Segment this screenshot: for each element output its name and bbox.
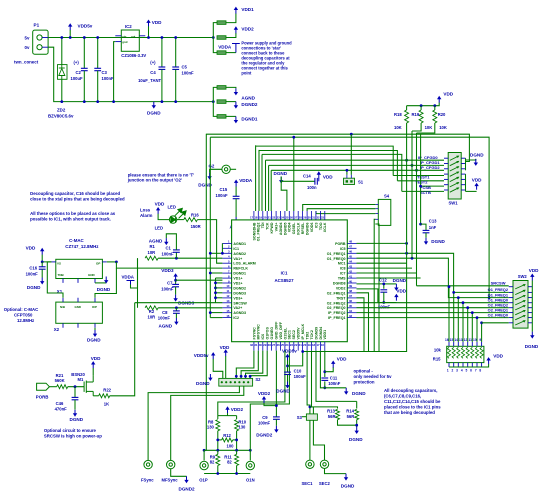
wire R8 top lead xyxy=(217,416,219,419)
node junction c9 top xyxy=(275,404,278,407)
svg-text:BSN20: BSN20 xyxy=(71,372,85,377)
wire X2 NB up xyxy=(47,262,63,298)
capacitor C16 xyxy=(39,267,46,269)
wire SW1 vdd riser xyxy=(466,190,477,192)
svg-text:DGND: DGND xyxy=(274,171,288,176)
svg-text:DGND: DGND xyxy=(70,417,84,422)
wire VDDA vert xyxy=(137,258,139,308)
svg-text:LED: LED xyxy=(168,205,176,210)
svg-text:10K: 10K xyxy=(439,125,447,130)
svg-text:VA3+: VA3+ xyxy=(274,223,278,232)
svg-text:GND_DIFF: GND_DIFF xyxy=(274,321,278,340)
svg-text:31: 31 xyxy=(254,343,258,347)
wire C10 column xyxy=(287,360,289,372)
svg-text:40: 40 xyxy=(349,279,353,283)
svg-text:37: 37 xyxy=(349,294,353,298)
power flag VDD reg xyxy=(146,20,150,27)
X2 pin stubs xyxy=(63,298,95,328)
ground DGND1 star xyxy=(234,116,238,123)
ground DGND SEC xyxy=(344,474,348,481)
node junction agnd3 xyxy=(209,311,212,314)
svg-text:R13: R13 xyxy=(327,409,335,414)
switch SW1 body xyxy=(448,153,461,200)
power flag VDD pullups xyxy=(437,96,441,103)
SW2 lever 2 xyxy=(515,290,526,295)
svg-text:150R: 150R xyxy=(191,224,201,229)
S4 pin 3 xyxy=(375,213,378,215)
node junction r15-1 xyxy=(448,285,451,288)
svg-text:560K: 560K xyxy=(55,378,65,383)
wire line2 drop col10 xyxy=(293,137,295,211)
svg-text:C15: C15 xyxy=(220,187,228,192)
svg-text:C5: C5 xyxy=(182,65,188,70)
svg-text:AGND1: AGND1 xyxy=(233,242,246,246)
svg-text:R2: R2 xyxy=(149,309,155,314)
wire G2 right lead xyxy=(230,168,236,170)
node junction zener bottom xyxy=(60,100,63,103)
svg-text:AGND: AGND xyxy=(149,238,163,243)
wire R13 bottom lead xyxy=(338,420,357,426)
wire R14 bottom lead xyxy=(356,420,358,427)
wire O1N lead xyxy=(249,450,251,460)
svg-text:IP_FREQ2: IP_FREQ2 xyxy=(328,311,345,315)
svg-text:TRST: TRST xyxy=(336,296,346,300)
node junction X1 OP xyxy=(115,261,118,264)
svg-text:SONSDHB: SONSDHB xyxy=(252,222,256,240)
wire R15 riser 7 xyxy=(476,318,478,342)
wire net run2 xyxy=(256,146,394,175)
svg-text:DGND: DGND xyxy=(470,153,484,158)
svg-text:O1SEL: O1SEL xyxy=(283,327,287,340)
svg-text:O2_FREQ1: O2_FREQ1 xyxy=(327,291,346,295)
wire cap C2 top lead xyxy=(83,38,85,69)
wire C10 from pin xyxy=(288,351,303,366)
node junction c10 tap xyxy=(286,365,289,368)
wire sec1 column xyxy=(307,351,310,414)
svg-text:45: 45 xyxy=(349,255,353,259)
ferrite link L-VDD2 xyxy=(217,36,226,40)
node junction rail VDD xyxy=(147,36,150,39)
svg-text:27: 27 xyxy=(294,215,298,219)
svg-text:SRCSW: SRCSW xyxy=(233,301,247,305)
svg-text:25: 25 xyxy=(285,215,289,219)
wire M1 source to R22 xyxy=(93,395,99,397)
ground DGND C10 xyxy=(285,382,289,389)
svg-text:56R: 56R xyxy=(347,414,355,419)
svg-text:DGND: DGND xyxy=(525,344,539,349)
wire O1P net from chip xyxy=(204,449,206,451)
node junction diff2 xyxy=(216,449,219,452)
SW2 lever 1 xyxy=(515,284,526,289)
ground DGND SW1 xyxy=(474,159,478,166)
svg-text:VD1+: VD1+ xyxy=(233,277,242,281)
node junction S1 tap xyxy=(350,133,353,136)
ground DGND C16 xyxy=(40,278,44,285)
oscillator X1 body xyxy=(56,259,103,278)
svg-text:15: 15 xyxy=(226,309,230,313)
svg-text:13: 13 xyxy=(459,338,463,342)
wire net IP_FREQ2 right xyxy=(357,312,509,314)
SW1 lever 3 xyxy=(450,166,460,171)
wire S4 pin3 wire xyxy=(316,211,375,214)
wire R19 bottom lead xyxy=(412,123,421,131)
wire R2 to VA2+ xyxy=(158,307,222,309)
svg-text:IC7: IC7 xyxy=(340,272,346,276)
svg-text:IP_CFGD2: IP_CFGD2 xyxy=(420,165,440,170)
node junction dgnd2b xyxy=(214,287,217,290)
svg-text:KPWD: KPWD xyxy=(270,222,274,233)
svg-text:O2SEL: O2SEL xyxy=(292,222,296,235)
svg-text:C11: C11 xyxy=(330,375,338,380)
wire S4 pin1 wire xyxy=(303,205,376,212)
SW1 pin stubs 6 xyxy=(444,184,466,186)
connector S4 xyxy=(378,199,391,225)
wire vdd2 rail diff xyxy=(218,415,237,417)
svg-text:out: out xyxy=(131,34,135,38)
power flag VDD X1 xyxy=(40,248,44,255)
svg-text:36: 36 xyxy=(349,299,353,303)
wire R12 right lead xyxy=(233,439,237,441)
svg-text:82: 82 xyxy=(227,460,232,465)
svg-text:13: 13 xyxy=(226,299,230,303)
svg-text:20: 20 xyxy=(303,343,307,347)
wire c12 dgnd branch xyxy=(384,283,397,285)
R15 pin numbers xyxy=(445,338,481,373)
svg-text:(+): (+) xyxy=(150,60,156,65)
svg-text:S3: S3 xyxy=(297,415,303,420)
node junction C46 gate xyxy=(74,385,77,388)
SW2 lever 7 xyxy=(515,315,526,320)
svg-text:10k: 10k xyxy=(434,348,442,353)
wire S2 pin5 riser xyxy=(246,351,263,379)
svg-text:SEC1: SEC1 xyxy=(302,481,314,486)
wire AGND branch b xyxy=(226,87,236,88)
svg-text:OP: OP xyxy=(96,262,100,266)
wire VDD1 branch b xyxy=(226,14,236,23)
SW1 pin stubs 5 xyxy=(444,178,466,180)
svg-text:41: 41 xyxy=(349,274,353,278)
node junction C1 xyxy=(175,257,178,260)
wire net TEST1 xyxy=(393,175,444,177)
svg-text:3: 3 xyxy=(456,369,458,373)
SW1 lever 7 xyxy=(450,187,460,192)
IC1 left-right pin names xyxy=(233,242,346,320)
S2 contacts xyxy=(221,381,250,383)
svg-text:29: 29 xyxy=(263,343,267,347)
svg-text:10: 10 xyxy=(226,284,230,288)
node junction cfg0 vert xyxy=(405,159,408,162)
svg-text:TMS: TMS xyxy=(338,277,346,281)
capacitor C13 xyxy=(423,230,430,232)
svg-text:27: 27 xyxy=(272,343,276,347)
SW2 lever 8 xyxy=(515,320,526,325)
svg-text:19: 19 xyxy=(308,343,312,347)
ground DGND C13 xyxy=(424,238,428,245)
node junction line2 freq0 xyxy=(488,296,491,299)
wire dgnd8 tap xyxy=(357,284,384,289)
node junction C5 top xyxy=(174,36,177,39)
wire C13 top lead xyxy=(421,224,426,230)
wire VDD stem xyxy=(148,26,150,37)
wire agnd3 tap xyxy=(210,312,222,314)
svg-text:All these options to be placed: All these options to be placed as close … xyxy=(30,211,116,222)
node junction star vdd xyxy=(212,36,215,39)
node junction porb vertA xyxy=(405,242,408,245)
svg-text:VDD5V: VDD5V xyxy=(297,327,301,340)
testpoint SEC2 xyxy=(320,460,328,468)
wire C46 top lead xyxy=(74,387,76,398)
SW1 lever 2 xyxy=(450,161,460,166)
svg-text:DGND8: DGND8 xyxy=(333,282,346,286)
svg-text:VDD6: VDD6 xyxy=(310,223,314,233)
wire net O1_FREQ1 xyxy=(357,253,509,292)
wire VDD5v stem xyxy=(69,30,71,38)
power flag VDD5v xyxy=(68,23,72,30)
svg-text:10uF_TANT: 10uF_TANT xyxy=(138,78,161,83)
svg-text:VDD2: VDD2 xyxy=(336,286,346,290)
SW2 pin stubs 7 xyxy=(509,317,533,319)
svg-text:42: 42 xyxy=(349,269,353,273)
wire refclk wire xyxy=(116,262,222,268)
svg-text:17: 17 xyxy=(316,343,320,347)
power flag VDD3 xyxy=(173,273,177,280)
svg-text:vin: vin xyxy=(122,34,126,38)
svg-text:7: 7 xyxy=(475,369,477,373)
resistor R8 xyxy=(216,420,220,431)
wire S4 pin2 wire xyxy=(307,209,375,211)
node junction C11 vdd xyxy=(323,370,326,373)
wire MFSync gnd tap xyxy=(171,469,187,477)
svg-text:MC1: MC1 xyxy=(338,262,346,266)
svg-text:5: 5 xyxy=(466,369,468,373)
svg-text:35: 35 xyxy=(349,304,353,308)
wire R15 common xyxy=(449,364,489,367)
svg-text:24: 24 xyxy=(285,343,289,347)
R15 elements xyxy=(447,347,483,358)
node junction C16 top xyxy=(41,261,44,264)
svg-text:VDD: VDD xyxy=(472,178,482,183)
power flag VDD1 xyxy=(234,7,238,14)
svg-text:SEC2: SEC2 xyxy=(292,330,296,339)
wire X1 OP to refclk xyxy=(107,261,117,263)
ground DGND2 tp xyxy=(184,476,188,483)
svg-text:IC2: IC2 xyxy=(233,316,239,320)
node junction diff3 xyxy=(235,449,238,452)
node junction IC2 gnd xyxy=(112,100,115,103)
svg-text:33: 33 xyxy=(349,314,353,318)
svg-text:VDD2: VDD2 xyxy=(241,27,254,32)
wire net run4 xyxy=(262,154,402,191)
svg-text:47: 47 xyxy=(349,245,353,249)
wire AGND branch xyxy=(213,87,217,101)
wire net O2_FREQ1 right xyxy=(357,293,369,352)
svg-text:TCK: TCK xyxy=(266,222,270,230)
wire R15 riser 6 xyxy=(471,313,473,342)
node junction c12 bottom xyxy=(382,301,385,304)
svg-text:SRCSW: SRCSW xyxy=(491,280,506,285)
svg-text:16: 16 xyxy=(321,343,325,347)
svg-text:VDD: VDD xyxy=(529,268,539,273)
svg-text:G2: G2 xyxy=(209,164,215,169)
svg-text:O2_FREQ0: O2_FREQ0 xyxy=(488,312,508,317)
P1 pin 0v circle xyxy=(37,45,42,50)
svg-text:C46: C46 xyxy=(56,401,64,406)
svg-text:VDD: VDD xyxy=(337,357,347,362)
SW2 lever 3 xyxy=(515,295,526,300)
power flag VDD R15 xyxy=(486,357,490,364)
capacitor C5 xyxy=(172,67,179,69)
svg-text:IC5: IC5 xyxy=(340,247,346,251)
svg-text:P1: P1 xyxy=(34,23,40,28)
regulator IC2 xyxy=(121,30,139,51)
wire ic2pin tap xyxy=(210,317,222,319)
svg-text:R18: R18 xyxy=(394,112,402,117)
power flag VDD LED xyxy=(156,207,160,214)
wire C8 bottom lead xyxy=(175,313,177,318)
wire net line1 top run xyxy=(206,134,469,161)
wire bend top pin2 xyxy=(258,150,260,211)
wire R8 bottom lead xyxy=(217,431,219,451)
svg-text:O1_FREQ1: O1_FREQ1 xyxy=(327,252,346,256)
ground DGND C14 xyxy=(279,177,283,184)
svg-text:29: 29 xyxy=(303,215,307,219)
S1 pin stubs xyxy=(347,175,351,178)
ferrite link L-VDDA xyxy=(217,51,226,55)
svg-text:DGND: DGND xyxy=(431,239,445,244)
svg-text:LED: LED xyxy=(155,226,163,231)
svg-text:TCK2: TCK2 xyxy=(310,330,314,339)
svg-text:GND: GND xyxy=(88,273,96,277)
svg-text:AGND: AGND xyxy=(159,324,173,329)
ground AGND C1 xyxy=(164,238,168,245)
S1 contacts xyxy=(346,180,353,182)
svg-text:48: 48 xyxy=(349,240,353,244)
wire R15 riser 5 xyxy=(467,308,469,342)
wire cap C4 top lead xyxy=(161,38,163,68)
node junction zener top xyxy=(60,36,63,39)
wire R15 riser 3 xyxy=(457,298,459,342)
wire agnd2 tap xyxy=(210,252,222,254)
svg-text:100: 100 xyxy=(227,443,235,448)
node junction star gnd xyxy=(212,100,215,103)
svg-text:VDD: VDD xyxy=(443,92,453,97)
wire R21 to gate xyxy=(68,386,84,388)
svg-text:VDD_DIFF: VDD_DIFF xyxy=(279,321,283,339)
svg-text:C4: C4 xyxy=(150,70,156,75)
capacitor C3 xyxy=(94,68,101,70)
wire net O1_FREQ0 xyxy=(357,258,509,297)
svg-text:100nF: 100nF xyxy=(26,271,39,276)
svg-text:DGND2: DGND2 xyxy=(256,432,273,437)
svg-text:O1P: O1P xyxy=(199,477,208,482)
node junction r15-8 xyxy=(480,321,483,324)
wire DGND1 branch xyxy=(213,102,217,117)
wire cap C3 top lead xyxy=(97,38,99,69)
svg-text:VDD4: VDD4 xyxy=(288,223,292,233)
wire C15 top lead xyxy=(235,187,237,197)
svg-text:DGND4: DGND4 xyxy=(319,327,323,340)
svg-text:18: 18 xyxy=(254,215,258,219)
svg-text:24: 24 xyxy=(281,215,285,219)
node junction C5 bottom xyxy=(174,100,177,103)
wire C14 gnd drop xyxy=(281,181,287,211)
wire cap C2 bottom lead xyxy=(83,71,85,102)
node junction R12 right xyxy=(235,439,238,442)
svg-text:34: 34 xyxy=(349,309,353,313)
SW2 lever 4 xyxy=(515,300,526,305)
wire net IC8 right xyxy=(357,267,413,269)
svg-text:VDD: VDD xyxy=(152,20,162,25)
wire dgnd3 tap xyxy=(216,292,223,294)
svg-text:VD3+: VD3+ xyxy=(233,296,242,300)
wire R1 to VA1+ xyxy=(158,257,222,259)
port PORB xyxy=(37,383,50,390)
svg-text:Alarm: Alarm xyxy=(140,213,153,218)
svg-text:CZ1086-3.3V: CZ1086-3.3V xyxy=(121,53,146,58)
svg-text:DGND9: DGND9 xyxy=(314,327,318,340)
svg-text:23: 23 xyxy=(290,343,294,347)
wire R15 riser 8 xyxy=(481,323,483,342)
switch SW2 body xyxy=(513,281,528,329)
svg-text:100nF: 100nF xyxy=(161,287,174,292)
svg-text:VDD5v: VDD5v xyxy=(78,24,93,29)
wire R20 bottom lead xyxy=(417,123,435,133)
wire VDD5v S2 jog xyxy=(213,359,223,379)
switch S3 xyxy=(306,414,317,420)
wire R16 to LOS_ALARM xyxy=(197,220,222,264)
svg-text:O2_FREQ2: O2_FREQ2 xyxy=(327,301,346,305)
oscillator X2 body xyxy=(56,302,103,323)
IC1 top-bottom pin stubs xyxy=(254,211,325,351)
svg-text:C10: C10 xyxy=(294,369,302,374)
svg-text:10: 10 xyxy=(473,338,477,342)
ground AGND star xyxy=(234,88,238,95)
svg-text:19: 19 xyxy=(259,215,263,219)
svg-text:O/P: O/P xyxy=(92,305,97,309)
svg-text:VDD: VDD xyxy=(26,245,36,250)
svg-text:junction on the output 'O2': junction on the output 'O2' xyxy=(127,178,182,183)
wire dgnd2 tap xyxy=(216,287,223,289)
node junction cfg1 vert xyxy=(411,164,414,167)
node junction C3 bottom xyxy=(96,100,99,103)
wire net TRST right xyxy=(357,298,365,352)
wire left bus 1 xyxy=(205,134,207,451)
node junction line2 col10 xyxy=(292,136,295,139)
wire net MC1 xyxy=(357,262,407,264)
svg-text:IP_FREQ1: IP_FREQ1 xyxy=(328,316,345,320)
svg-text:C7: C7 xyxy=(167,281,173,286)
svg-text:C-MAC: C-MAC xyxy=(69,238,84,243)
wire vdd2 tap xyxy=(357,289,397,303)
node junction c10-porb xyxy=(301,350,304,353)
svg-text:12: 12 xyxy=(226,294,230,298)
wire R14 feed xyxy=(316,351,357,402)
wire C9 column xyxy=(275,351,277,417)
svg-text:O1_FREQ0: O1_FREQ0 xyxy=(327,257,346,261)
wire SW1 common bottom xyxy=(465,174,467,191)
testpoint G2 xyxy=(222,165,230,173)
VDDA T-port left xyxy=(127,281,135,285)
power flag VDD5v S2 xyxy=(211,352,215,359)
svg-text:N/B: N/B xyxy=(60,305,65,309)
X1 pin stubs xyxy=(51,262,106,283)
svg-text:VDD5v: VDD5v xyxy=(194,353,209,358)
SW1 pin stubs 2 xyxy=(444,163,466,165)
IC1 left-right pin stubs xyxy=(222,243,356,317)
IC2 pin stubs xyxy=(115,36,145,42)
wire R20 top lead xyxy=(434,106,436,110)
svg-text:DGND: DGND xyxy=(276,389,290,394)
